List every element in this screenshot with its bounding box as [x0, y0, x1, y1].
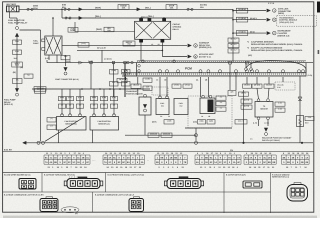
label box V1 a	[13, 40, 22, 45]
bottom scan shadow	[3, 216, 317, 218]
branch wire to instrument cluster	[233, 32, 266, 34]
arrow down selector	[264, 128, 268, 132]
circle ref TCM	[273, 18, 277, 22]
wire V1	[16, 36, 18, 89]
circle ref cluster	[273, 31, 277, 35]
resistor labels	[305, 116, 314, 121]
node circle V1 top	[16, 27, 19, 30]
bus pin 9	[246, 70, 249, 73]
dashed box AC	[188, 96, 232, 128]
sensor box 1 drop	[58, 130, 60, 143]
node selector	[265, 133, 268, 136]
circle ref data link	[273, 9, 277, 13]
relay R2 left pin b	[42, 48, 45, 51]
separator line above tables	[3, 151, 314, 153]
label box V1 d	[13, 78, 23, 83]
misc label box AC24	[235, 119, 247, 124]
label box 143b	[143, 86, 152, 91]
wire 196 down	[195, 128, 197, 141]
label box branch2	[236, 17, 248, 22]
V2 label box	[35, 88, 46, 93]
long wire LW top edge PCM	[47, 62, 313, 64]
sensor drop 2	[69, 89, 71, 115]
TP sensor box	[255, 102, 273, 118]
wire battery down	[9, 12, 11, 18]
drop B x113	[113, 63, 115, 97]
arrow up V1	[15, 33, 19, 37]
AC relay box with dark half	[200, 98, 215, 114]
bus pin 11	[256, 70, 259, 73]
panel divider 1	[41, 173, 43, 192]
wire right chain vertical	[232, 9, 234, 62]
wire 243 down	[243, 90, 245, 143]
pin table 1	[46, 152, 85, 155]
battery	[7, 6, 20, 12]
drop wire 247b	[246, 77, 248, 84]
pin table 6	[283, 152, 309, 155]
label AF	[252, 84, 262, 89]
sensor drop 5	[103, 89, 105, 115]
junction dot 1	[232, 10, 234, 12]
dashed box small	[152, 87, 168, 95]
relay R1 top pin c	[163, 18, 166, 21]
V2 long vertical	[40, 30, 42, 142]
pin table 5	[246, 152, 272, 155]
arrow to TCM	[267, 18, 271, 21]
pin table 3	[157, 152, 183, 155]
panel divider 3	[223, 173, 225, 213]
label boxes mid	[172, 84, 181, 89]
keyless drop	[101, 50, 103, 62]
relay R1 top pin a	[140, 18, 143, 21]
arc stub b	[250, 63, 252, 68]
sensor drop 3	[79, 89, 81, 115]
drop wire bus2	[137, 77, 139, 84]
connector C5	[287, 183, 308, 201]
junction	[109, 88, 111, 90]
arrow on W1 2	[137, 8, 141, 11]
wire W1 corner down	[232, 9, 234, 12]
ref label boxes column	[216, 96, 226, 101]
wire TP b2	[268, 88, 269, 99]
PCM bottom bar	[122, 72, 306, 74]
circle ref row1	[194, 44, 198, 48]
drop wire 283	[282, 77, 284, 82]
dashed note box	[275, 82, 295, 90]
pin square on LW 1	[229, 61, 232, 64]
V3 arrow	[64, 67, 68, 71]
stub to relay R1 pin b	[163, 17, 165, 19]
bus pin 12	[268, 70, 271, 73]
sensor box 2 drop	[92, 130, 94, 143]
label box V1 b	[13, 50, 22, 55]
diagonal wire	[45, 117, 85, 142]
PCM right edge	[305, 63, 307, 77]
small oval connector	[61, 207, 79, 213]
dashed box TCM	[277, 16, 317, 27]
junction dot 3	[232, 32, 234, 34]
ref row 1 wire	[62, 44, 187, 46]
label box below bus 1	[117, 78, 127, 83]
junction circle mid	[194, 134, 197, 137]
sensor drop 6	[113, 89, 115, 115]
connector C4	[243, 181, 262, 188]
TP bottom wire b	[267, 120, 269, 126]
PCM left edge	[136, 63, 138, 77]
pin table 4	[197, 152, 236, 155]
stub to relay R1 pin a	[140, 17, 142, 19]
drop C x125	[124, 63, 126, 97]
bus pin 10	[251, 70, 254, 73]
connector C7	[129, 197, 144, 212]
drop wires injectors	[159, 77, 161, 97]
label box 243	[239, 92, 249, 97]
label box defog	[123, 41, 135, 46]
label box branch3	[236, 30, 248, 35]
wire circle to V2	[20, 29, 41, 31]
small box right mid	[228, 90, 236, 95]
arc end pin a	[245, 68, 248, 71]
label box on W3	[68, 27, 78, 32]
junction W1-W2	[61, 9, 63, 11]
junction dot right	[301, 142, 303, 144]
fuse BTN	[64, 8, 70, 10]
ground label box a	[148, 133, 159, 138]
label 2C	[264, 84, 274, 89]
branch wire to TCM	[233, 19, 266, 21]
drop wire bus1	[125, 77, 127, 80]
arrow down V1	[15, 88, 19, 92]
label boxes drop C	[122, 69, 131, 74]
connector C3	[164, 177, 203, 189]
wire R2 bottom drop b	[56, 55, 58, 63]
panel divider 2	[105, 173, 107, 192]
diode symbol	[298, 97, 302, 100]
label box left of box1 a	[47, 117, 56, 122]
sensor box 1	[57, 117, 87, 131]
drop wire TP a	[256, 77, 258, 84]
arrow to data link	[267, 9, 271, 12]
injector box 2	[174, 99, 188, 115]
relay R2 left pin a	[42, 39, 45, 42]
pin square drop B	[112, 61, 114, 63]
crank box drop	[144, 115, 146, 135]
drop A x91	[90, 63, 92, 89]
label box 143a	[143, 78, 152, 83]
row2 divider	[92, 192, 94, 212]
bus pin 5	[199, 70, 202, 73]
fuse EGI	[187, 8, 193, 10]
TP labels right	[275, 102, 285, 107]
connector C6	[40, 197, 58, 212]
arrow on W1	[79, 8, 83, 11]
bus pin 13	[282, 70, 285, 73]
wires down right mid	[229, 64, 231, 90]
V3 node	[64, 72, 67, 75]
arrow ref row1	[188, 44, 192, 47]
sensor drop 1	[61, 89, 63, 115]
fuse on W2	[65, 17, 71, 19]
sensor box 2	[90, 117, 119, 131]
bus pin 1	[124, 70, 127, 73]
drop wire TP b	[268, 77, 270, 84]
sensor drop 4	[93, 89, 95, 115]
right column wire	[299, 76, 301, 142]
pin square drop C	[124, 61, 126, 63]
sensor feed wire	[32, 88, 150, 90]
R1 pin drop wire a	[140, 42, 142, 61]
pin table 2	[105, 152, 140, 155]
separator line below tables	[3, 172, 314, 174]
arc stub a	[245, 63, 247, 68]
circle ignition	[194, 55, 198, 59]
arc wire to bus right	[246, 61, 306, 74]
label box W3 right	[104, 27, 114, 32]
connector C1	[19, 179, 36, 190]
node circle V1 bottom	[16, 93, 19, 96]
relay R1 bottom pin b	[161, 39, 164, 42]
ref row 2 wire	[162, 56, 187, 58]
ref row keyless wire	[77, 49, 162, 51]
bus pin 6	[207, 70, 210, 73]
open arrow on LW	[79, 61, 83, 64]
junction circle mid2	[194, 141, 197, 144]
bus pin 14	[298, 70, 301, 73]
junction dot right2	[242, 142, 244, 144]
crank sensor box	[139, 97, 151, 115]
LW pin circle b	[131, 61, 133, 63]
wire W2	[62, 17, 233, 19]
label box 247	[243, 84, 252, 89]
left label box 5A	[24, 74, 33, 79]
bus pin 4	[177, 70, 180, 73]
label box below bus 2	[131, 84, 141, 89]
junction	[81, 88, 83, 90]
relay R2 circuit opening relay	[45, 36, 62, 55]
scan edge bar right	[317, 2, 320, 13]
ground circle b	[41, 141, 44, 144]
top edge pin b	[173, 60, 176, 63]
row separator 2	[3, 191, 271, 193]
ground label box b	[161, 133, 172, 138]
LW pin circle a	[127, 61, 129, 63]
wire under AC	[185, 127, 232, 129]
resistor box right	[297, 116, 304, 127]
top edge pin a	[142, 60, 145, 63]
wire TP a2	[257, 88, 259, 99]
label box ROOM fuse	[118, 5, 129, 10]
label box V1 c	[12, 62, 22, 67]
junction	[119, 88, 121, 90]
bus pin 8	[235, 70, 238, 73]
bottom long wire	[26, 142, 313, 144]
ground circle a	[37, 141, 40, 144]
panel divider 4	[270, 173, 272, 213]
bus pin 15	[302, 70, 305, 73]
R1 pin drop wire b	[161, 42, 163, 56]
label box sensor feed	[34, 86, 46, 91]
pin square on LW 2	[246, 61, 249, 64]
arc end pin b	[250, 68, 253, 71]
wire R2 bottom drop a	[48, 55, 50, 60]
PCM left pins	[138, 65, 141, 68]
bus pin 7	[219, 70, 222, 73]
arrow ignition	[188, 55, 192, 58]
wire R2 top to W2	[52, 18, 54, 36]
ground bus wire	[125, 134, 196, 136]
relay R1 bottom pin a	[140, 39, 143, 42]
hatch on PCM top edge	[137, 60, 306, 62]
label box branch1	[236, 8, 248, 13]
page ref boxes right column	[228, 38, 239, 43]
label boxes drop B	[110, 69, 119, 74]
connector C2	[64, 177, 103, 189]
wire W1 battery feed	[19, 8, 233, 10]
junction dot 2	[232, 19, 234, 21]
misc label box 1-10B	[164, 119, 174, 124]
wire W3	[75, 22, 135, 32]
bus pin 3	[166, 70, 169, 73]
arrow to cluster	[267, 32, 271, 35]
junction	[99, 88, 101, 90]
relay R1 top pin b	[148, 18, 151, 21]
label box STOP fuse	[166, 5, 177, 10]
V3 vertical	[65, 55, 67, 66]
label box L-R row1	[78, 42, 89, 47]
V3 label box	[61, 55, 70, 60]
pin square drop A	[90, 61, 92, 63]
arrow on W2	[79, 16, 83, 19]
label box left of box1 b	[47, 125, 56, 130]
TP sensor labels left	[241, 99, 252, 104]
ground arrow left	[23, 141, 27, 144]
TP bottom wire a	[258, 120, 260, 126]
injector box 1	[156, 99, 169, 115]
bus pin 2	[159, 70, 162, 73]
branch wire to data link connector	[233, 10, 266, 12]
